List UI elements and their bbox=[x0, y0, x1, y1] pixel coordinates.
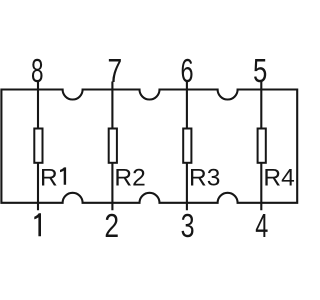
svg-text:3: 3 bbox=[181, 208, 195, 245]
svg-text:R3: R3 bbox=[189, 165, 220, 192]
svg-text:7: 7 bbox=[107, 53, 122, 89]
resistor R3 body bbox=[183, 129, 191, 163]
svg-text:5: 5 bbox=[253, 53, 267, 90]
component body outline with top/bottom notches bbox=[1, 90, 297, 203]
wire pin 7 to pin 2 bbox=[111, 82, 113, 211]
wire pin 8 to pin 1 bbox=[37, 82, 39, 211]
resistor R1 body bbox=[34, 129, 42, 163]
svg-text:R4: R4 bbox=[263, 165, 294, 192]
resistor R4 body bbox=[258, 129, 266, 163]
wire pin 5 to pin 4 bbox=[260, 82, 262, 211]
wire pin 6 to pin 3 bbox=[186, 82, 188, 211]
svg-text:6: 6 bbox=[180, 53, 193, 90]
svg-text:4: 4 bbox=[255, 208, 268, 245]
pin 1 number (plain stem '1') bbox=[34, 213, 41, 236]
svg-text:8: 8 bbox=[31, 52, 43, 89]
svg-text:R: R bbox=[40, 165, 58, 192]
resistor R2 body bbox=[109, 129, 117, 163]
svg-text:R2: R2 bbox=[114, 165, 145, 192]
svg-text:2: 2 bbox=[104, 208, 119, 244]
